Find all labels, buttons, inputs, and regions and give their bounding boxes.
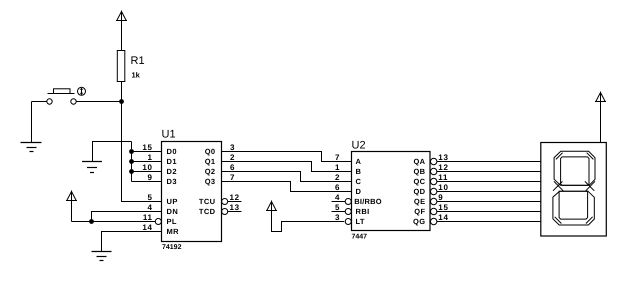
node DN/PL junction (89, 219, 94, 224)
wire RBI stub (332, 211, 346, 213)
svg-text:DN: DN (167, 207, 179, 216)
wire QF to display (437, 211, 541, 213)
svg-text:U2: U2 (352, 140, 366, 152)
svg-text:A: A (356, 157, 362, 166)
svg-text:7: 7 (335, 153, 340, 162)
upper loop inner outline (segments A F B G tops) (561, 157, 589, 186)
svg-text:1: 1 (335, 163, 340, 172)
power VCC1 arrow above R1 (116, 11, 127, 51)
wire QG to display (437, 221, 541, 223)
wire ground stub to D-bus (93, 142, 132, 162)
svg-text:QA: QA (413, 157, 425, 166)
key symbol of switch (78, 87, 86, 95)
pin bubble TCU (222, 199, 228, 205)
svg-text:U1: U1 (162, 129, 176, 141)
svg-text:D0: D0 (167, 147, 177, 156)
seven-segment display box (541, 143, 607, 237)
wire QB to display (437, 171, 541, 173)
svg-text:12: 12 (438, 163, 448, 172)
svg-text:13: 13 (230, 203, 240, 212)
wire bus to D2 (132, 171, 162, 173)
ground G3 (92, 252, 112, 261)
svg-text:11: 11 (438, 173, 448, 182)
svg-text:D3: D3 (167, 177, 177, 186)
wire DN to junction (92, 212, 162, 222)
svg-text:4: 4 (335, 193, 340, 202)
wire TCD stub (228, 211, 242, 213)
svg-text:14: 14 (142, 223, 152, 232)
power VCC4 arrow for display (595, 92, 606, 143)
segment G left joint diagonal 2 (553, 181, 562, 190)
ground G2 (82, 162, 102, 173)
svg-text:D2: D2 (167, 167, 177, 176)
wire junction down to UP pin (122, 102, 162, 202)
svg-text:D: D (356, 187, 362, 196)
segment A and upper loop outer outline (554, 151, 595, 185)
svg-text:R1: R1 (131, 55, 145, 67)
pin bubble QA (431, 158, 437, 164)
node bus-D2 (129, 169, 134, 174)
svg-text:Q1: Q1 (205, 157, 216, 166)
segment G left joint diagonal 1 (554, 181, 563, 191)
segment D and lower loop outer outline (553, 191, 594, 225)
wire VCC2 to PL bubble (72, 221, 156, 223)
wire bus to D3 (132, 181, 162, 183)
segment separator top-left (556, 153, 563, 160)
svg-text:11: 11 (143, 213, 153, 222)
IC U1 74192 up/down counter box (162, 142, 222, 242)
svg-text:4: 4 (148, 203, 153, 212)
resistor R1 (117, 51, 125, 82)
wire R1 bottom to junction (121, 82, 123, 102)
svg-text:5: 5 (335, 203, 340, 212)
svg-text:1k: 1k (132, 71, 141, 80)
pin bubble QF (431, 208, 437, 214)
svg-text:PL: PL (167, 217, 177, 226)
pin bubble QD (431, 188, 437, 194)
svg-text:14: 14 (438, 213, 448, 222)
wire QC to display (437, 181, 541, 183)
pin bubble QE (431, 198, 437, 204)
svg-text:QC: QC (413, 177, 425, 186)
segment separator bottom-left (555, 217, 562, 224)
pin bubble QB (431, 168, 437, 174)
svg-text:5: 5 (148, 193, 153, 202)
wire BI/RBO stub (332, 201, 346, 203)
pin bubble QG (431, 218, 437, 224)
svg-text:C: C (356, 177, 362, 186)
svg-text:2: 2 (335, 173, 340, 182)
svg-text:13: 13 (438, 153, 448, 162)
svg-text:9: 9 (148, 173, 153, 182)
svg-text:D1: D1 (167, 157, 177, 166)
node bus-D0 (129, 149, 134, 154)
svg-text:3: 3 (335, 213, 340, 222)
svg-text:10: 10 (438, 183, 448, 192)
power VCC3 arrow for LT (266, 201, 344, 232)
power VCC2 arrow for DN/PL (66, 191, 77, 222)
pin bubble QC (431, 178, 437, 184)
segment G right joint diagonal 1 (586, 181, 595, 191)
wire switch left to ground (31, 102, 33, 143)
pin bubble PL (155, 219, 161, 225)
wire Q2 to C (222, 172, 352, 182)
ground G1 (21, 143, 42, 152)
svg-text:MR: MR (167, 227, 180, 236)
svg-text:QB: QB (413, 167, 425, 176)
wire QD to display (437, 191, 541, 193)
svg-text:7: 7 (230, 173, 235, 182)
IC U2 7447 BCD to 7-segment decoder box (352, 152, 431, 231)
svg-text:QG: QG (413, 217, 425, 226)
svg-text:UP: UP (167, 197, 178, 206)
svg-text:Q2: Q2 (205, 167, 216, 176)
svg-text:Q0: Q0 (205, 147, 216, 156)
segment G right joint diagonal 2 (585, 181, 594, 190)
wire QA to display (437, 161, 541, 163)
svg-text:QE: QE (414, 197, 426, 206)
pin bubble RBI (345, 209, 351, 215)
svg-text:QF: QF (414, 207, 425, 216)
svg-text:10: 10 (142, 163, 152, 172)
pin bubble BI/RBO (345, 199, 351, 205)
svg-text:Q3: Q3 (205, 177, 216, 186)
svg-text:3: 3 (230, 143, 235, 152)
wire D-bus vertical (131, 142, 133, 182)
svg-text:7447: 7447 (352, 234, 368, 241)
svg-text:12: 12 (230, 193, 240, 202)
svg-text:TCD: TCD (199, 207, 216, 216)
pin bubble LT (345, 219, 351, 225)
svg-text:6: 6 (335, 183, 340, 192)
wire TCU stub (228, 201, 242, 203)
wire QE to display (437, 201, 541, 203)
svg-text:LT: LT (356, 217, 365, 226)
pin bubble TCD (222, 209, 228, 215)
svg-text:BI/RBO: BI/RBO (354, 197, 381, 206)
wire Q3 to D (222, 182, 352, 192)
wire bus to D0 (132, 151, 162, 153)
wire MR to ground (102, 232, 162, 252)
svg-text:6: 6 (230, 163, 235, 172)
svg-text:QD: QD (413, 187, 425, 196)
segment separator bottom-right (586, 217, 593, 224)
svg-text:TCU: TCU (199, 197, 216, 206)
node junction R1/switch/UP (119, 99, 124, 104)
svg-text:2: 2 (230, 153, 235, 162)
node bus-D1 (129, 159, 134, 164)
switch S1 pushbutton (32, 89, 122, 104)
svg-text:15: 15 (438, 203, 448, 212)
wire bus to D1 (132, 161, 162, 163)
svg-text:B: B (356, 167, 362, 176)
svg-text:RBI: RBI (356, 207, 370, 216)
svg-text:9: 9 (438, 193, 443, 202)
segment separator top-right (587, 153, 594, 160)
svg-text:15: 15 (142, 143, 152, 152)
svg-text:74192: 74192 (162, 244, 182, 251)
wire Q1 to B (222, 162, 352, 172)
wire Q0 to A (222, 152, 352, 162)
lower loop inner outline (segments E C D G bottoms) (559, 191, 588, 219)
svg-text:1: 1 (148, 153, 153, 162)
